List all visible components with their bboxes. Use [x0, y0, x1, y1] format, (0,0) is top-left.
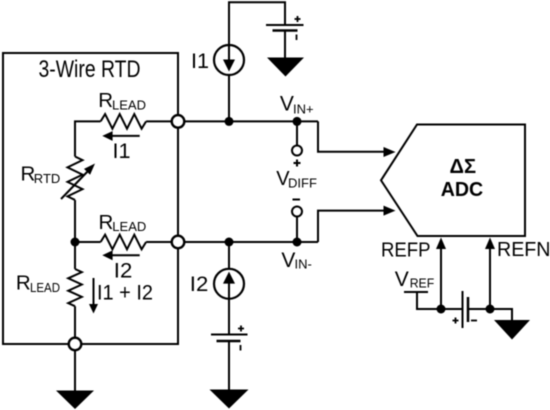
svg-text:R: R	[99, 211, 114, 234]
svg-text:IN+: IN+	[293, 101, 314, 116]
svg-text:V: V	[281, 249, 295, 272]
svg-text:DIFF: DIFF	[288, 175, 317, 190]
svg-text:I1: I1	[113, 140, 131, 163]
svg-text:REFN: REFN	[497, 238, 550, 261]
svg-text:V: V	[280, 93, 294, 116]
svg-text:LEAD: LEAD	[112, 219, 146, 234]
svg-text:V: V	[395, 268, 409, 291]
svg-text:3-Wire RTD: 3-Wire RTD	[39, 56, 141, 83]
svg-text:ΔΣ: ΔΣ	[450, 156, 477, 178]
svg-text:REF: REF	[410, 276, 435, 291]
svg-text:R: R	[98, 89, 113, 112]
svg-text:I2: I2	[190, 273, 209, 296]
svg-text:I2: I2	[114, 260, 133, 283]
svg-text:I1 + I2: I1 + I2	[97, 281, 153, 304]
svg-text:LEAD: LEAD	[112, 97, 146, 112]
svg-text:RTD: RTD	[34, 171, 60, 186]
svg-text:I1: I1	[191, 50, 209, 73]
svg-text:REFP: REFP	[381, 238, 431, 261]
svg-text:LEAD: LEAD	[30, 280, 60, 295]
svg-text:IN-: IN-	[295, 257, 312, 272]
svg-text:R: R	[16, 272, 31, 295]
svg-text:ADC: ADC	[441, 179, 484, 201]
